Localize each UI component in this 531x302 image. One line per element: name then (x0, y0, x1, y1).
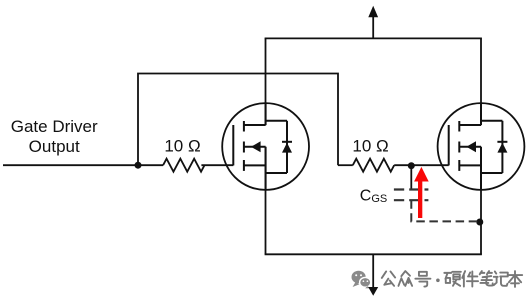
svg-text:Gate Driver: Gate Driver (11, 117, 98, 136)
svg-text:Output: Output (29, 137, 80, 156)
svg-text:10 Ω: 10 Ω (164, 137, 200, 156)
svg-text:CGS: CGS (360, 188, 387, 205)
svg-text:10 Ω: 10 Ω (352, 137, 388, 156)
